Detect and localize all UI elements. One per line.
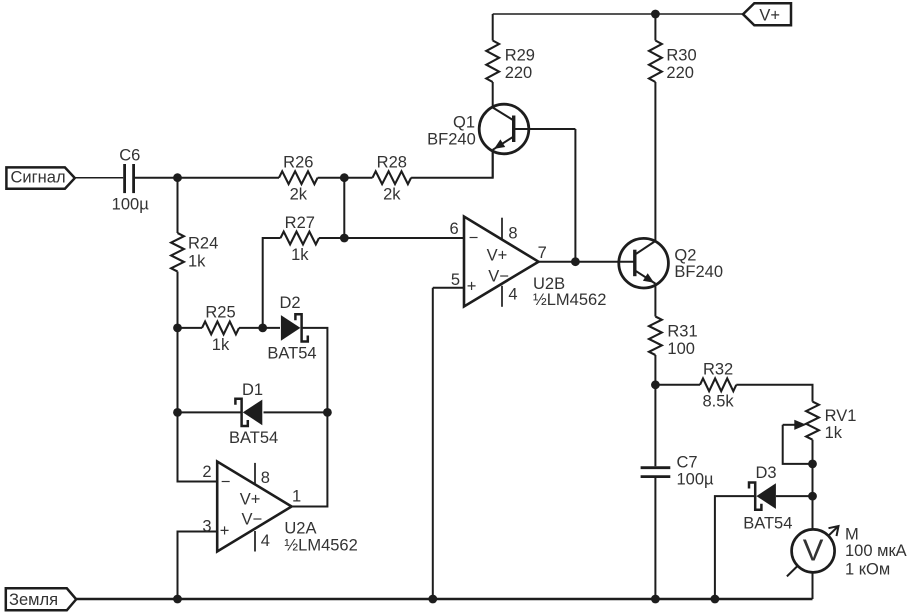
- wire rail to R29: [492, 14, 494, 41]
- svg-text:−: −: [469, 229, 479, 247]
- svg-text:1k: 1k: [188, 252, 206, 270]
- svg-text:7: 7: [538, 244, 547, 262]
- svg-text:BAT54: BAT54: [267, 344, 316, 362]
- svg-text:1k: 1k: [825, 424, 843, 442]
- svg-text:V+: V+: [240, 490, 261, 508]
- ground port flag Земля: [6, 588, 76, 610]
- junction node H: [571, 257, 580, 266]
- diode D1: [243, 400, 262, 426]
- svg-text:100µ: 100µ: [112, 196, 150, 214]
- wire node C to R25: [178, 327, 203, 329]
- capacitor C6: [123, 164, 126, 193]
- wire D2 cathode to node F: [302, 328, 328, 413]
- svg-text:100µ: 100µ: [677, 470, 715, 488]
- wire node H up to Q1 base: [574, 129, 576, 262]
- capacitor C7: [641, 466, 671, 469]
- wire U2B pin5 to ground: [432, 288, 434, 599]
- svg-text:Q1: Q1: [453, 113, 475, 131]
- wire R30 to Q2 collector: [654, 82, 656, 241]
- svg-text:D3: D3: [755, 464, 776, 482]
- wire node D to U2B pin 6: [344, 237, 464, 239]
- svg-text:V+: V+: [487, 246, 508, 264]
- resistor R29: [486, 41, 499, 83]
- wire R27 to node D: [319, 237, 344, 239]
- resistor R31: [649, 317, 662, 356]
- svg-text:5: 5: [451, 271, 460, 289]
- resistor R27: [281, 232, 320, 245]
- svg-text:100: 100: [667, 340, 695, 358]
- svg-text:½LM4562: ½LM4562: [533, 291, 606, 309]
- svg-text:1: 1: [292, 487, 301, 505]
- op-amp U2A: [217, 462, 291, 552]
- wire node C to node G: [177, 328, 179, 413]
- wire C7 to ground: [654, 478, 656, 599]
- power flag V+: [743, 3, 791, 25]
- diode D2: [281, 315, 301, 341]
- svg-text:+: +: [220, 522, 230, 540]
- wire V+ rail: [493, 13, 743, 15]
- wire RV1 wiper loop: [783, 425, 813, 464]
- junction node A: [173, 173, 182, 182]
- wire signal flag to C6: [75, 177, 123, 179]
- potentiometer RV1: [806, 402, 819, 440]
- wire R28 to Q1 emitter: [411, 151, 493, 178]
- resistor R30: [649, 41, 662, 83]
- svg-text:BAT54: BAT54: [743, 514, 792, 532]
- wire Q1 base: [515, 128, 575, 130]
- svg-text:R30: R30: [666, 46, 696, 64]
- resistor R32: [700, 378, 736, 391]
- wire R24 to node C: [177, 272, 179, 328]
- wire C6 to node A: [135, 177, 279, 179]
- svg-text:R25: R25: [205, 304, 235, 322]
- svg-text:1 кОм: 1 кОм: [845, 560, 890, 578]
- wire R31 to node J: [654, 355, 656, 385]
- svg-text:V: V: [803, 532, 824, 567]
- svg-text:R27: R27: [285, 214, 315, 232]
- junction node E: [258, 324, 267, 333]
- input port flag Сигнал: [6, 167, 74, 188]
- junction node F: [323, 408, 332, 417]
- resistor R26: [279, 171, 318, 184]
- svg-text:D2: D2: [279, 294, 300, 312]
- wire meter to ground rail: [812, 572, 814, 599]
- wire Q2 emitter down: [654, 285, 656, 317]
- wire U2A output to node F: [292, 412, 328, 506]
- wire node J to C7: [654, 385, 656, 467]
- wire node B down to node D: [343, 178, 345, 238]
- svg-text:V+: V+: [759, 6, 780, 24]
- svg-text:220: 220: [666, 64, 694, 82]
- op-amp U2B: [464, 217, 539, 307]
- junction node D: [340, 234, 349, 243]
- junction node J: [651, 380, 660, 389]
- wire U2A pin 3 to ground: [178, 532, 218, 600]
- wire U2B output to Q2 base: [539, 261, 635, 263]
- svg-text:2: 2: [202, 463, 211, 481]
- junction node C: [173, 324, 182, 333]
- junction ground node C: [651, 595, 660, 604]
- wire ground rail: [76, 598, 812, 600]
- svg-text:8: 8: [508, 225, 517, 243]
- svg-text:BAT54: BAT54: [229, 429, 278, 447]
- wire RV1 bottom to meter: [812, 440, 814, 530]
- wire D1 anode to node F: [264, 411, 328, 413]
- wire R32 to RV1: [736, 385, 812, 402]
- svg-text:RV1: RV1: [825, 407, 857, 425]
- junction ground node D: [711, 595, 720, 604]
- svg-text:6: 6: [450, 220, 459, 238]
- svg-text:V−: V−: [241, 511, 262, 529]
- svg-text:U2A: U2A: [284, 519, 316, 537]
- svg-text:½LM4562: ½LM4562: [284, 537, 357, 555]
- svg-text:R31: R31: [667, 322, 697, 340]
- svg-text:R26: R26: [283, 153, 313, 171]
- svg-text:Земля: Земля: [9, 591, 58, 609]
- junction node B: [340, 173, 349, 182]
- svg-text:8.5k: 8.5k: [703, 393, 735, 411]
- svg-text:Q2: Q2: [674, 246, 696, 264]
- svg-text:R28: R28: [377, 153, 407, 171]
- svg-text:V−: V−: [488, 267, 509, 285]
- svg-text:220: 220: [505, 64, 533, 82]
- resistor R25: [202, 322, 239, 335]
- svg-text:BF240: BF240: [674, 263, 723, 281]
- transistor Q1: [479, 104, 529, 154]
- wire node A down to R24: [177, 178, 179, 233]
- svg-text:−: −: [221, 473, 231, 491]
- junction ground node B: [428, 595, 437, 604]
- junction V+ rail node: [651, 10, 660, 19]
- svg-text:Сигнал: Сигнал: [11, 169, 66, 187]
- wire node E to D2: [263, 327, 280, 329]
- svg-text:C6: C6: [119, 147, 140, 165]
- junction ground node A: [173, 595, 182, 604]
- junction node L: [808, 492, 817, 501]
- wire rail to R30: [654, 14, 656, 41]
- wire node G down to U2A pin 2: [178, 412, 218, 481]
- wire D3 cathode loop to ground: [715, 496, 755, 599]
- svg-text:D1: D1: [242, 381, 263, 399]
- wire R25 to node E: [239, 327, 263, 329]
- svg-text:+: +: [467, 277, 477, 295]
- svg-text:8: 8: [261, 469, 270, 487]
- svg-text:1k: 1k: [212, 336, 230, 354]
- wire Q1 emitter down: [492, 151, 494, 178]
- wire U2B pin 5 lead: [433, 287, 464, 289]
- wire D3 anode to node L: [776, 495, 813, 497]
- meter M: [787, 527, 838, 577]
- svg-text:R29: R29: [505, 46, 535, 64]
- junction node K: [808, 460, 817, 469]
- svg-text:R32: R32: [703, 361, 733, 379]
- svg-text:1k: 1k: [291, 246, 309, 264]
- transistor Q2: [619, 238, 669, 288]
- wire node J to R32: [655, 384, 700, 386]
- svg-text:4: 4: [508, 285, 517, 303]
- junction node G: [173, 408, 182, 417]
- svg-text:3: 3: [202, 517, 211, 535]
- wire R27 left lead: [263, 238, 281, 328]
- svg-text:C7: C7: [677, 454, 698, 472]
- diode D3: [756, 483, 776, 509]
- svg-text:2k: 2k: [383, 186, 401, 204]
- svg-text:M: M: [845, 525, 859, 543]
- wire R29 to Q1 collector: [492, 82, 494, 108]
- wire R26 to node B: [318, 177, 373, 179]
- svg-text:100 мкА: 100 мкА: [845, 542, 907, 560]
- svg-text:BF240: BF240: [427, 130, 476, 148]
- svg-text:4: 4: [261, 532, 270, 550]
- svg-text:2k: 2k: [290, 186, 308, 204]
- wire node G to D1 cathode: [178, 411, 242, 413]
- svg-text:R24: R24: [188, 235, 218, 253]
- resistor R24: [171, 233, 184, 272]
- resistor R28: [373, 171, 412, 184]
